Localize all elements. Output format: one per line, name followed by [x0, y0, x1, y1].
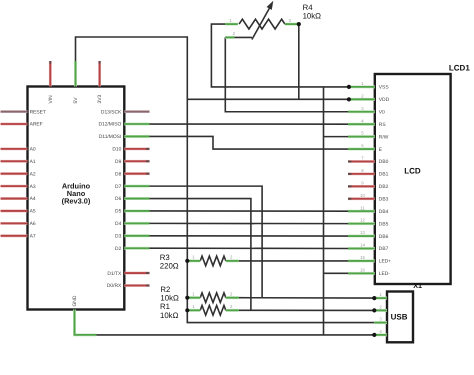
svg-text:4: 4 — [379, 329, 382, 334]
potentiometer R4 wiper lead — [225, 36, 252, 38]
wire D12/MISO to LCD RS (pin 4) — [150, 123, 349, 125]
wire D4 to LCD DB5 (pin 12) — [150, 222, 349, 224]
svg-text:DB5: DB5 — [379, 221, 389, 227]
svg-text:A7: A7 — [30, 234, 36, 240]
svg-text:DB6: DB6 — [379, 234, 389, 240]
svg-text:1: 1 — [361, 81, 364, 86]
svg-text:D13/SCK: D13/SCK — [101, 109, 122, 115]
svg-text:3: 3 — [289, 18, 292, 23]
svg-text:3: 3 — [379, 317, 382, 322]
pin D10 (Arduino right) — [124, 147, 149, 150]
svg-text:V0: V0 — [379, 109, 385, 115]
potentiometer R4 wiper arrow — [252, 8, 270, 40]
node LCD VSS junction — [347, 85, 351, 89]
svg-text:5: 5 — [361, 131, 364, 136]
svg-text:USB: USB — [391, 312, 408, 321]
svg-text:8: 8 — [361, 168, 364, 173]
resistor R1 leg pin 1 — [187, 309, 200, 312]
svg-text:14: 14 — [360, 243, 365, 248]
svg-text:AREF: AREF — [30, 122, 43, 128]
node R2 pin 1 junction on 5V rail — [185, 296, 189, 300]
pin 5V (Arduino top) — [74, 61, 77, 87]
potentiometer R4 zigzag body — [239, 19, 285, 29]
wire D7 down to USB pin 1 net — [150, 186, 263, 298]
potentiometer R4 leg pin 1 — [225, 23, 238, 26]
wire ground rail vertical — [323, 87, 325, 335]
pin A2 (Arduino left) — [1, 172, 28, 175]
wire pot R4 left terminal to LCD VSS (pin 1) / ground — [211, 24, 348, 87]
node R3 pin 1 junction on 5V rail — [185, 259, 189, 263]
svg-text:D2: D2 — [115, 246, 122, 252]
svg-text:R/W: R/W — [379, 134, 389, 140]
svg-text:D0/RX: D0/RX — [107, 283, 122, 289]
svg-text:2: 2 — [230, 255, 233, 260]
pin A1 (Arduino left) — [1, 160, 28, 163]
resistor R3 zigzag body — [200, 256, 226, 266]
wire R2 to USB pin 1 — [239, 297, 374, 299]
pin GND (Arduino bottom) with bent leg — [75, 310, 97, 335]
wire 5V branch to LCD VDD (pin 2) — [187, 98, 348, 100]
svg-text:DB7: DB7 — [379, 246, 389, 252]
svg-text:2: 2 — [379, 305, 382, 310]
svg-text:2: 2 — [233, 31, 236, 36]
wire pot R4 right terminal down to 5V line — [298, 24, 300, 99]
svg-text:D12/MISO: D12/MISO — [98, 122, 121, 128]
svg-text:9: 9 — [361, 180, 364, 185]
svg-text:R2: R2 — [160, 285, 170, 294]
pin D6 (Arduino right) — [124, 197, 149, 200]
svg-text:3V3: 3V3 — [97, 95, 103, 104]
pin A6 (Arduino left) — [1, 222, 28, 225]
pin AREF (Arduino left) — [1, 123, 28, 126]
svg-text:D8: D8 — [115, 171, 122, 177]
pin 2 (USB) — [374, 309, 387, 312]
wire R1 to USB pin 2 — [239, 309, 374, 311]
node pot R4 right terminal junction — [297, 22, 301, 26]
wire D11/MOSI to LCD E (pin 6) — [150, 136, 349, 149]
pin D5 (Arduino right) — [124, 209, 149, 212]
wire D3 to LCD DB6 (pin 13) — [150, 235, 349, 237]
svg-text:A2: A2 — [30, 171, 36, 177]
pin 5 R/W (LCD) — [348, 135, 375, 138]
node LCD VDD junction — [347, 97, 351, 101]
pin 11 DB4 (LCD) — [348, 210, 375, 213]
pin A4 (Arduino left) — [1, 197, 28, 200]
pin D3 (Arduino right) — [124, 234, 149, 237]
svg-text:3: 3 — [361, 106, 364, 111]
pin 12 DB5 (LCD) — [348, 222, 375, 225]
pin 4 RS (LCD) — [348, 123, 375, 126]
svg-text:1: 1 — [192, 304, 195, 309]
svg-text:A3: A3 — [30, 184, 36, 190]
svg-text:1: 1 — [192, 255, 195, 260]
svg-text:16: 16 — [360, 267, 365, 272]
node USB pin 4 junction — [372, 333, 376, 337]
svg-text:LED+: LED+ — [379, 259, 392, 265]
pin 1 VSS (LCD) — [348, 85, 375, 88]
pin D12/MISO (Arduino right) — [124, 123, 149, 126]
svg-text:2: 2 — [230, 292, 233, 297]
svg-text:D5: D5 — [115, 209, 122, 215]
pin D9 (Arduino right) — [124, 160, 149, 163]
Arduino Nano title — [62, 181, 91, 205]
svg-text:A4: A4 — [30, 196, 36, 202]
svg-text:DB3: DB3 — [379, 196, 389, 202]
wire Arduino GND to USB pin 4 (ground bottom run) — [96, 334, 374, 336]
svg-text:D3: D3 — [115, 234, 122, 240]
svg-text:12: 12 — [360, 218, 365, 223]
svg-text:D11/MOSI: D11/MOSI — [99, 134, 121, 140]
wire D2 to LCD DB7 (pin 14) — [150, 247, 349, 249]
pin RESET (Arduino left) — [1, 110, 28, 113]
svg-text:A5: A5 — [30, 209, 36, 215]
svg-text:4: 4 — [361, 118, 364, 123]
pin 4 (USB) — [374, 333, 387, 336]
pin D8 (Arduino right) — [124, 172, 149, 175]
svg-text:D1/TX: D1/TX — [107, 271, 122, 277]
pin VIN (Arduino top) — [49, 61, 52, 87]
svg-text:5V: 5V — [73, 97, 79, 104]
Arduino Nano A1 body — [28, 87, 125, 310]
svg-text:X1: X1 — [413, 281, 422, 290]
svg-text:LCD1: LCD1 — [449, 63, 470, 72]
svg-text:13: 13 — [360, 230, 365, 235]
svg-text:1: 1 — [379, 292, 382, 297]
svg-text:LED-: LED- — [379, 271, 391, 277]
resistor R2 zigzag body — [200, 293, 226, 303]
svg-text:2: 2 — [230, 304, 233, 309]
pin 10 DB3 (LCD) — [348, 197, 375, 200]
svg-text:D9: D9 — [115, 159, 122, 165]
pin 6 E (LCD) — [348, 148, 375, 151]
wire pot R4 wiper to LCD V0 (pin 3) — [225, 37, 348, 111]
svg-text:11: 11 — [360, 205, 365, 210]
svg-text:VIN: VIN — [48, 95, 54, 104]
svg-text:D10: D10 — [112, 147, 121, 153]
svg-text:DB1: DB1 — [379, 172, 389, 178]
LCD LCD1 body — [375, 74, 451, 284]
wire D6 down to USB pin 2 net — [150, 199, 251, 311]
pin D0/RX (Arduino right) — [124, 284, 149, 287]
svg-text:LCD: LCD — [404, 166, 421, 175]
pin 3 V0 (LCD) — [348, 110, 375, 113]
svg-text:220Ω: 220Ω — [160, 262, 179, 271]
resistor R1 leg pin 2 — [226, 309, 239, 312]
svg-text:DB0: DB0 — [379, 159, 389, 165]
pin A0 (Arduino left) — [1, 147, 28, 150]
svg-text:D7: D7 — [115, 184, 122, 190]
pin A3 (Arduino left) — [1, 185, 28, 188]
pin 16 LED- (LCD) — [348, 272, 375, 275]
svg-text:D4: D4 — [115, 221, 122, 227]
USB X1 body — [387, 292, 413, 343]
pin D1/TX (Arduino right) — [124, 272, 149, 275]
resistor R3 leg pin 2 — [226, 259, 239, 262]
svg-text:2: 2 — [361, 93, 364, 98]
svg-text:VDD: VDD — [379, 97, 390, 103]
svg-text:R1: R1 — [160, 302, 170, 311]
pin A5 (Arduino left) — [1, 210, 28, 213]
node USB pin 2 junction — [372, 308, 376, 312]
pin D11/MOSI (Arduino right) — [124, 135, 149, 138]
pin 7 DB0 (LCD) — [348, 160, 375, 163]
svg-text:RESET: RESET — [30, 109, 46, 115]
wire ground to LCD R/W (pin 5) — [324, 136, 349, 138]
svg-text:6: 6 — [361, 143, 364, 148]
svg-text:A1: A1 — [30, 159, 36, 165]
svg-text:VSS: VSS — [379, 85, 390, 91]
pin 13 DB6 (LCD) — [348, 235, 375, 238]
svg-text:15: 15 — [360, 255, 365, 260]
pin 1 (USB) — [374, 297, 387, 300]
node USB pin 1 junction — [372, 296, 376, 300]
svg-text:1: 1 — [229, 18, 232, 23]
svg-text:(Rev3.0): (Rev3.0) — [62, 197, 91, 206]
svg-text:10kΩ: 10kΩ — [160, 311, 179, 320]
pin 9 DB2 (LCD) — [348, 185, 375, 188]
svg-text:D6: D6 — [115, 196, 122, 202]
wire ground to LCD LED- (pin 16) — [324, 272, 349, 274]
svg-text:DB2: DB2 — [379, 184, 389, 190]
wire D5 to LCD DB4 (pin 11) — [150, 210, 349, 212]
potentiometer R4 leg pin 2 (wiper) — [225, 36, 234, 39]
resistor R2 leg pin 2 — [226, 296, 239, 299]
svg-text:10kΩ: 10kΩ — [303, 12, 322, 21]
svg-text:GND: GND — [72, 295, 78, 306]
pin 14 DB7 (LCD) — [348, 247, 375, 250]
svg-text:7: 7 — [361, 156, 364, 161]
pin A7 (Arduino left) — [1, 234, 28, 237]
svg-text:1: 1 — [192, 292, 195, 297]
svg-text:A6: A6 — [30, 221, 36, 227]
resistor R2 leg pin 1 — [187, 296, 200, 299]
pin 3 (USB) — [374, 321, 387, 324]
pin 3V3 (Arduino top) — [98, 61, 101, 87]
svg-text:10: 10 — [360, 193, 365, 198]
resistor R1 zigzag body — [200, 306, 226, 316]
wire 5V net: Arduino 5V up, across, down the 5V rail, to USB pin 3 — [76, 37, 375, 323]
pin D2 (Arduino right) — [124, 247, 149, 250]
wire R3 to LCD LED+ (pin 15) — [239, 260, 348, 262]
svg-text:RS: RS — [379, 122, 387, 128]
svg-text:A0: A0 — [30, 147, 36, 153]
resistor R3 leg pin 1 — [187, 259, 200, 262]
pin 15 LED+ (LCD) — [348, 259, 375, 262]
pin D7 (Arduino right) — [124, 185, 149, 188]
pin D13/SCK (Arduino right) — [124, 110, 149, 113]
pin 8 DB1 (LCD) — [348, 173, 375, 176]
svg-text:DB4: DB4 — [379, 209, 389, 215]
pin D4 (Arduino right) — [124, 222, 149, 225]
node R1 pin 1 junction on 5V rail — [185, 308, 189, 312]
potentiometer R4 leg pin 3 — [285, 23, 298, 26]
pin 2 VDD (LCD) — [348, 98, 375, 101]
svg-text:R3: R3 — [160, 253, 170, 262]
